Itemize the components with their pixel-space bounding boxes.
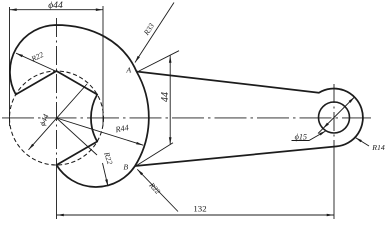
svg-text:R33: R33 xyxy=(141,21,156,37)
132 right extension line xyxy=(333,150,335,219)
svg-text:R22: R22 xyxy=(147,180,163,196)
svg-text:A: A xyxy=(125,66,131,75)
R22 lower-inner radius leader from O1 to bottom R22 arc xyxy=(57,118,98,155)
R33 radius leader pointing at arc above A xyxy=(135,3,174,63)
phi44 top dimension: right extension line xyxy=(102,6,104,125)
svg-text:R22: R22 xyxy=(102,150,115,166)
44 dimension: extension line from A xyxy=(139,51,179,71)
phi15 hole circle at O2 xyxy=(319,102,350,133)
svg-text:44: 44 xyxy=(160,92,171,102)
R44 radius leader from center O1 to the R44 arc xyxy=(57,118,144,145)
svg-text:ϕ44: ϕ44 xyxy=(48,0,63,11)
44 dimension: extension line from B xyxy=(135,143,173,167)
handle outline: top line, R14 end cap arc, bottom line xyxy=(135,72,363,167)
132 left extension line xyxy=(56,170,58,219)
R14 radius leader to outer cap arc xyxy=(355,138,369,147)
svg-text:R14: R14 xyxy=(371,143,385,152)
phi44 inner diameter leader across dashed circle xyxy=(29,84,88,150)
svg-text:ϕ44: ϕ44 xyxy=(38,113,51,128)
phi15 leader with shelf and arrow to hole circle xyxy=(292,131,326,141)
R22 upper radius leader from hexagon vertex V90 to outer arc xyxy=(16,53,56,71)
diagonal radius line through hole circle xyxy=(318,97,355,134)
vertical centerline through O2 (also 132 right extension line) xyxy=(333,84,335,150)
R22 connecting-arc leader pointing at B xyxy=(137,169,178,211)
132 dimension line with arrows xyxy=(57,214,335,216)
phi44 top dimension line with arrows xyxy=(10,9,104,11)
wrench head outline: R22 upper arc, R33 arc, R44 arc, R22 lower arc, hexagon jaw xyxy=(10,25,149,187)
svg-text:R22: R22 xyxy=(29,50,45,64)
vertical centerline through O1 (also 132 left extension line) xyxy=(56,18,58,170)
svg-text:R44: R44 xyxy=(114,123,130,134)
phi44 top dimension: left extension line xyxy=(9,7,11,126)
horizontal centerline through O1 and O2 xyxy=(2,117,371,119)
dashed construction circle phi44 around O1 xyxy=(10,71,104,165)
svg-text:132: 132 xyxy=(193,203,206,213)
44 dimension line with arrows xyxy=(169,56,171,145)
svg-text:B: B xyxy=(123,162,128,171)
svg-text:ϕ15: ϕ15 xyxy=(295,133,307,142)
